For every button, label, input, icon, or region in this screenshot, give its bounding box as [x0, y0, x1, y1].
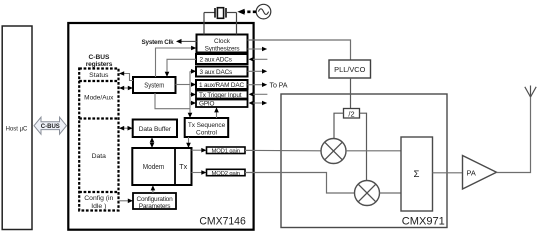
- block MOD1 gain: [207, 147, 246, 155]
- block Data Buffer: [133, 120, 177, 138]
- block 1 aux/RAM DAC: [196, 80, 248, 89]
- svg-text:Host µC: Host µC: [6, 125, 28, 132]
- wire Tx to MOD1 gain: [192, 148, 207, 153]
- wire Data registers to Data Buffer bidirectional: [119, 126, 133, 131]
- wire Tx Sequence Control to Tx: [186, 137, 191, 148]
- label System Clk with arrow: [142, 39, 197, 46]
- wire PLL/VCO to divider: [350, 78, 352, 109]
- wire Mode/Aux to System bidirectional: [119, 86, 133, 91]
- wire System bottom to riser: [155, 93, 190, 109]
- svg-text:PA: PA: [467, 169, 476, 178]
- svg-text:Data Buffer: Data Buffer: [139, 126, 172, 133]
- wire System right to riser: [176, 84, 191, 86]
- wire GPIO bidirectional stub: [249, 101, 268, 106]
- block MOD2 gain: [207, 169, 246, 177]
- host microcontroller box Host µC: [2, 26, 32, 230]
- svg-text:C-BUS: C-BUS: [41, 124, 60, 130]
- C-BUS interface double arrow: [34, 117, 67, 134]
- wire Data Buffer to Modem bidirectional: [150, 137, 155, 148]
- block Clock Synthesizers: [197, 35, 248, 53]
- block System: [133, 77, 176, 93]
- antenna: [525, 86, 536, 98]
- svg-text:/2: /2: [348, 109, 354, 118]
- wire Config to Configuration Parameters: [119, 199, 134, 204]
- svg-text:Mode/Aux: Mode/Aux: [84, 95, 114, 102]
- block GPIO: [196, 100, 248, 108]
- svg-text:MOD2 gain: MOD2 gain: [211, 171, 239, 177]
- C-BUS registers dashed container: [79, 69, 118, 211]
- block Tx Sequence Control: [185, 118, 229, 137]
- svg-text:Config (in: Config (in: [84, 195, 113, 202]
- block Modem with Tx section: [132, 148, 191, 185]
- svg-text:2 aux ADCs: 2 aux ADCs: [200, 57, 232, 64]
- svg-text:C-BUS: C-BUS: [89, 54, 110, 61]
- crystal X1: [204, 8, 237, 35]
- wire riser to 3 aux DACs: [190, 69, 196, 74]
- svg-text:registers: registers: [86, 61, 113, 68]
- block Tx Trigger Input: [196, 91, 248, 100]
- wire mixer1 to summer: [346, 150, 401, 152]
- register Mode/Aux section: [79, 95, 118, 119]
- svg-text:PLL/VCO: PLL/VCO: [334, 65, 365, 74]
- wire MOD2 to mixer2: [245, 173, 355, 194]
- wire System to Status: [119, 71, 133, 80]
- register Config (in Idle) section: [84, 195, 113, 210]
- svg-text:Tx Trigger Input: Tx Trigger Input: [199, 92, 242, 99]
- wire Tx Trigger Input stub: [249, 92, 268, 96]
- svg-text:Control: Control: [196, 130, 218, 137]
- chip CMX7146 box: [68, 23, 253, 230]
- wire riser to Tx Trigger Input: [190, 92, 196, 97]
- C-BUS registers heading: [86, 54, 113, 68]
- wire 1 aux/RAM DAC To PA stub: [248, 81, 288, 89]
- wire mixer2 to summer: [380, 192, 402, 194]
- block PLL/VCO: [329, 60, 371, 78]
- wire riser to 1 aux/RAM DAC: [191, 82, 196, 87]
- wire 2 aux ADCs input stub: [249, 57, 268, 61]
- external oscillator source: [256, 4, 271, 19]
- svg-text:Clock: Clock: [214, 38, 231, 45]
- svg-text:Tx Sequence: Tx Sequence: [188, 122, 226, 129]
- dashed alternate clock arrow: [237, 9, 256, 15]
- svg-text:To PA: To PA: [270, 81, 288, 89]
- register Data section: [79, 153, 118, 192]
- svg-text:Idle ): Idle ): [91, 203, 106, 210]
- wire Clock Synthesizers to PLL/VCO: [248, 40, 351, 60]
- svg-text:Parameters: Parameters: [139, 203, 172, 210]
- svg-text:Modem: Modem: [143, 162, 165, 171]
- block 2 aux ADCs: [196, 54, 248, 64]
- wire System to Clock Synthesizers: [156, 46, 197, 77]
- wire 2 aux ADCs to System: [165, 59, 196, 77]
- svg-text:Data: Data: [92, 153, 107, 160]
- wire riser to Tx Sequence Control: [188, 109, 193, 118]
- svg-text:3 aux DACs: 3 aux DACs: [200, 69, 233, 76]
- wire Tx to MOD2 gain: [192, 170, 207, 175]
- wire clock output stub: [248, 47, 268, 52]
- wire summer to PA: [433, 172, 463, 174]
- wire Configuration Parameters to Modem: [151, 185, 156, 193]
- svg-text:CMX7146: CMX7146: [199, 216, 245, 228]
- riser net from System to IO blocks: [189, 71, 191, 108]
- svg-text:Tx: Tx: [179, 162, 187, 171]
- svg-text:MOD1 gain: MOD1 gain: [211, 149, 239, 155]
- wire riser to GPIO: [190, 101, 196, 106]
- wire MOD1 to mixer1: [245, 149, 321, 151]
- block 3 aux DACs: [196, 67, 248, 77]
- register Status section: [79, 72, 118, 81]
- svg-text:Configuration: Configuration: [136, 196, 173, 203]
- svg-text:CMX971: CMX971: [402, 215, 445, 227]
- chip CMX971 box: [281, 94, 447, 228]
- svg-text:1 aux/RAM DAC: 1 aux/RAM DAC: [199, 82, 244, 89]
- summer block sigma: [401, 137, 433, 211]
- mixer 2: [355, 181, 380, 206]
- block Configuration Parameters: [133, 193, 176, 210]
- block divide-by-2: [344, 109, 360, 119]
- svg-text:Synthesizers: Synthesizers: [205, 46, 240, 53]
- svg-text:System Clk: System Clk: [142, 39, 175, 46]
- mixer 1: [321, 139, 346, 164]
- wire Tx Sequence Control to GPIO: [214, 107, 219, 118]
- wire 3 aux DACs output stub: [248, 69, 268, 74]
- wire PA to antenna: [497, 97, 531, 173]
- wire divider to mixer2: [360, 113, 367, 180]
- amplifier PA: [463, 156, 497, 190]
- svg-text:Status: Status: [89, 72, 109, 79]
- svg-text:System: System: [144, 80, 164, 89]
- svg-text:GPIO: GPIO: [199, 101, 215, 108]
- svg-text:Σ: Σ: [414, 169, 420, 180]
- wire divider to mixer1: [334, 113, 344, 138]
